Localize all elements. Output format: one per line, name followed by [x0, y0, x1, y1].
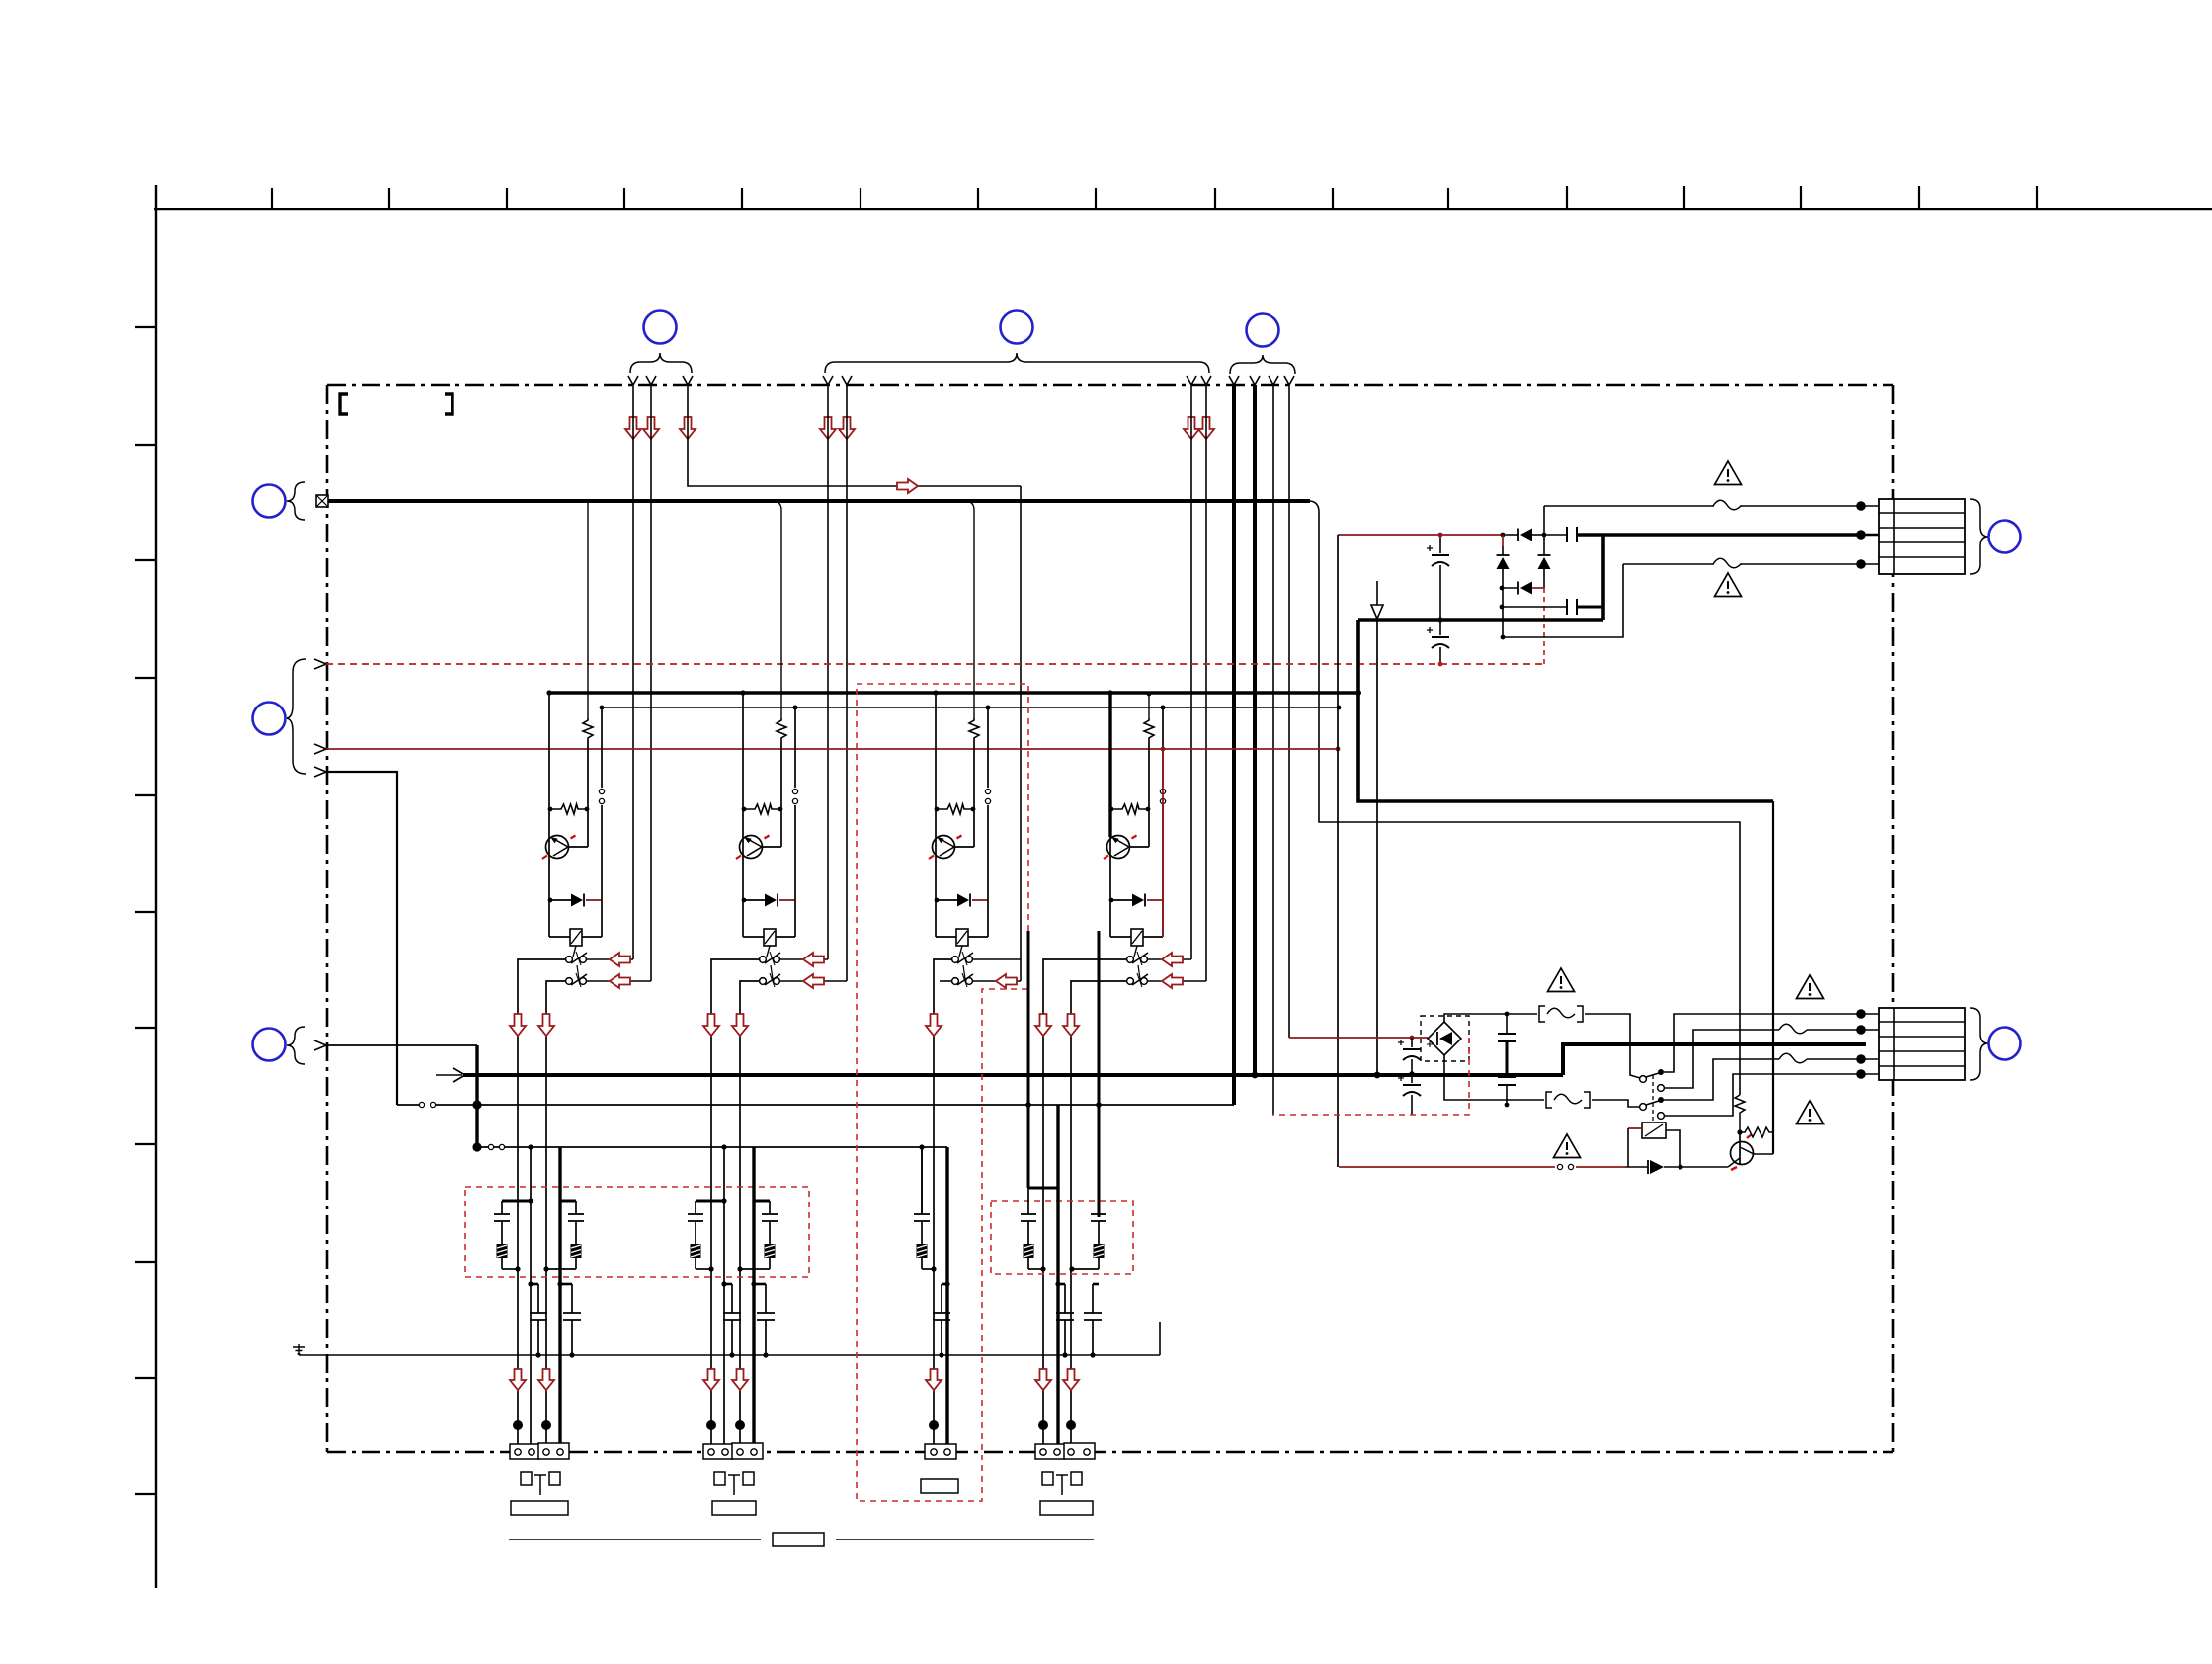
- shunt capacitor columns: [528, 1281, 533, 1286]
- wire drop to lower red line: [1337, 535, 1339, 1167]
- red sense line: [1339, 1166, 1555, 1168]
- CH3 emitter resistor feed: [966, 501, 974, 718]
- speaker terminal symbol group 2: [712, 1472, 756, 1515]
- AC line 3 with fuse: [1623, 563, 1861, 565]
- red dashed filter box left: [465, 1187, 809, 1277]
- CH1 emitter resistor feed: [587, 501, 589, 718]
- filter caps between rails: [1506, 1014, 1508, 1034]
- CH3 output arrow: [926, 1014, 942, 1036]
- CH1 switch leads left: [518, 959, 565, 1447]
- channel 2 block: [736, 690, 798, 987]
- connector callout circle G: [1989, 521, 2021, 553]
- ground rail lower: [477, 1146, 947, 1148]
- bridge smoothing caps: [1411, 1038, 1413, 1047]
- channel 3 block: [929, 690, 991, 987]
- wire pin C3 drop: [1272, 385, 1274, 1115]
- connector callout circle E: [253, 703, 286, 735]
- diode D1: [1501, 533, 1506, 538]
- rectified line bottom with fuse box: [1444, 1055, 1639, 1107]
- bias resistor vertical: [1735, 1095, 1745, 1132]
- brace right of upper connector: [1970, 499, 1988, 574]
- ruler top tick marks: [272, 186, 2037, 209]
- left edge pin with cross: [316, 495, 328, 507]
- relay coil: [1642, 1123, 1666, 1138]
- CH2 output arrows: [703, 1014, 719, 1036]
- diode D4 vertical: [1538, 554, 1551, 556]
- red dashed board section CH3: [857, 684, 1028, 1501]
- wire vertical to CH3 switch: [1020, 486, 1022, 981]
- diode protection: [1625, 1166, 1648, 1168]
- red dashed drop to control line: [1543, 588, 1545, 664]
- wire pin A1 drop: [632, 385, 634, 959]
- LC column 4: [762, 1201, 778, 1269]
- red flow arrows below top pins: [625, 417, 641, 439]
- CH4 switch leads right: [1148, 958, 1191, 960]
- wire pin B1 drop: [827, 385, 829, 959]
- wire corner to diode lattice: [1543, 506, 1545, 535]
- CH4 output arrows: [1035, 1014, 1051, 1036]
- brace under circle C: [1230, 355, 1295, 374]
- speaker connector group 3: [925, 1444, 956, 1459]
- connector callout circle D: [253, 485, 286, 518]
- selector switch contacts: [1640, 1069, 1665, 1123]
- thick AC line 2: [1577, 533, 1861, 537]
- thick rail to staircase: [1358, 618, 1603, 622]
- AC line 1 with fuse: [1544, 505, 1861, 507]
- wire pin B2 drop: [846, 385, 848, 981]
- switch line to connector row1: [1664, 1014, 1861, 1072]
- brace right of lower connector: [1970, 1008, 1988, 1080]
- speaker terminal symbol group 1: [511, 1472, 568, 1515]
- LC column 2: [568, 1201, 584, 1269]
- thick staircase upper: [1358, 620, 1773, 801]
- bias resistor horizontal: [1737, 1129, 1742, 1134]
- brace under circle B: [825, 353, 1209, 373]
- wire from left pin F: [326, 1044, 477, 1046]
- CH1 switch leads right: [587, 958, 633, 960]
- wire pin C2 thick drop to main supply bus: [1253, 385, 1257, 1075]
- CH4 emitter resistor feed: [1148, 694, 1150, 718]
- warning triangle top right: [1715, 461, 1742, 485]
- output arrows bottom row: [510, 1369, 526, 1390]
- terminal label group 3: [921, 1479, 958, 1493]
- protect transistor: [1731, 1142, 1754, 1165]
- LC column 7: [1091, 1201, 1106, 1269]
- LC column 3: [688, 1201, 703, 1269]
- diode D2 vertical: [1502, 535, 1504, 546]
- connector callout circle B: [1001, 311, 1033, 344]
- smoothing cap 2: [1439, 620, 1441, 635]
- LC column 6: [1021, 1201, 1036, 1269]
- wire thick rail drop to supply bus: [1376, 620, 1378, 1075]
- wire pin A3 drop to signal line: [688, 385, 1021, 486]
- board outline dash-dot box: [327, 385, 1893, 1452]
- channel mid rail: [602, 707, 1339, 708]
- ruler border left line: [155, 185, 157, 1588]
- ruler left tick marks: [135, 327, 156, 1494]
- bridge rectifier: [1421, 1016, 1469, 1061]
- red feed to bridge: [1289, 1037, 1428, 1039]
- CH3 switch leads left: [934, 959, 951, 1447]
- wire pin B4 drop: [1205, 385, 1207, 981]
- wire thick drop from pin F line: [475, 1045, 478, 1147]
- inline connector on return rail: [419, 1102, 424, 1107]
- brace right of circle E: [287, 659, 306, 774]
- red dashed filter box right: [991, 1201, 1133, 1274]
- lower board connector: [1879, 1008, 1965, 1080]
- red feed line: [1338, 534, 1506, 536]
- left edge pins: [314, 659, 326, 669]
- warning triangle under line 3: [1715, 573, 1742, 597]
- inline connector on ground rail: [488, 1144, 493, 1149]
- speaker connector group 4: [1035, 1443, 1095, 1459]
- speaker terminal symbol group 4: [1040, 1472, 1093, 1515]
- brace under circle A: [630, 353, 692, 373]
- top pin headers: [628, 376, 1294, 385]
- wire pin B3 drop: [1190, 385, 1192, 959]
- connector callout circle F: [253, 1029, 286, 1061]
- CH4 red rail: [1162, 749, 1164, 937]
- speaker return rail: [397, 1104, 1234, 1106]
- ground symbol: [293, 1344, 305, 1355]
- junction dots above connectors: [513, 1420, 523, 1430]
- red flow arrow on signal line: [897, 479, 918, 493]
- channel 4 block: [1104, 690, 1166, 987]
- connector callout circle A: [644, 311, 677, 344]
- CH2 emitter resistor feed: [774, 501, 781, 718]
- warning triangles lower section: [1548, 968, 1575, 992]
- ruler border top line: [154, 208, 2212, 210]
- connector callout circle H: [1989, 1028, 2021, 1060]
- dark red line from left pin: [326, 748, 1338, 750]
- diode D3 horizontal: [1500, 586, 1505, 591]
- LC column 1: [494, 1201, 510, 1269]
- flow arrow into thick rail: [1376, 581, 1378, 605]
- speaker connector group 2: [703, 1443, 763, 1459]
- vertical feed lines into filters: [530, 1147, 532, 1452]
- smoothing cap 1: [1439, 535, 1441, 553]
- channel top bus thick: [549, 691, 1358, 695]
- brace right of circle F: [287, 1027, 305, 1064]
- CH1 output arrows: [510, 1014, 526, 1036]
- thick link vertical: [1601, 535, 1605, 620]
- rectified line top with fuse box: [1444, 1014, 1640, 1078]
- capacitor AC coupling bottom: [1500, 605, 1505, 610]
- red dashed control line from left pin: [326, 663, 1544, 665]
- switch line to connector row4 with fuse: [1664, 1059, 1861, 1100]
- red dashed PSU boundary: [1272, 1038, 1469, 1115]
- CH2 switch leads left: [711, 959, 759, 1447]
- wire pin C1 thick drop: [1232, 385, 1236, 1105]
- channel 1 block: [542, 690, 605, 987]
- speaker connector group 1: [510, 1443, 569, 1459]
- CH3 switch leads right: [973, 958, 1021, 960]
- upper board connector: [1879, 499, 1965, 574]
- CH2 switch leads right: [780, 958, 828, 960]
- switch line to connector row2 with fuse: [1665, 1030, 1861, 1088]
- board name brackets: [340, 394, 348, 414]
- wire from left pin 3: [326, 772, 397, 1105]
- capacitor AC coupling top: [1544, 534, 1567, 536]
- bottom note line with label box: [509, 1539, 761, 1540]
- CH4 switch leads left: [1043, 959, 1126, 1447]
- wire pin A2 drop: [650, 385, 652, 981]
- wire bus drop right: [1310, 501, 1740, 1095]
- ground line with symbol: [299, 1354, 1160, 1356]
- supply bus riser to lower connector: [1563, 1044, 1866, 1075]
- switch line to connector row5: [1665, 1074, 1861, 1116]
- main supply bus thick with arrow: [463, 1073, 1563, 1077]
- main input bus thick from left pin: [328, 499, 1310, 503]
- wire pin C4 drop: [1288, 385, 1290, 1038]
- CH4 thick collector line: [1108, 693, 1111, 837]
- brace right of circle D: [287, 482, 305, 520]
- LC column 5: [914, 1201, 930, 1269]
- connector callout circle C: [1247, 314, 1279, 347]
